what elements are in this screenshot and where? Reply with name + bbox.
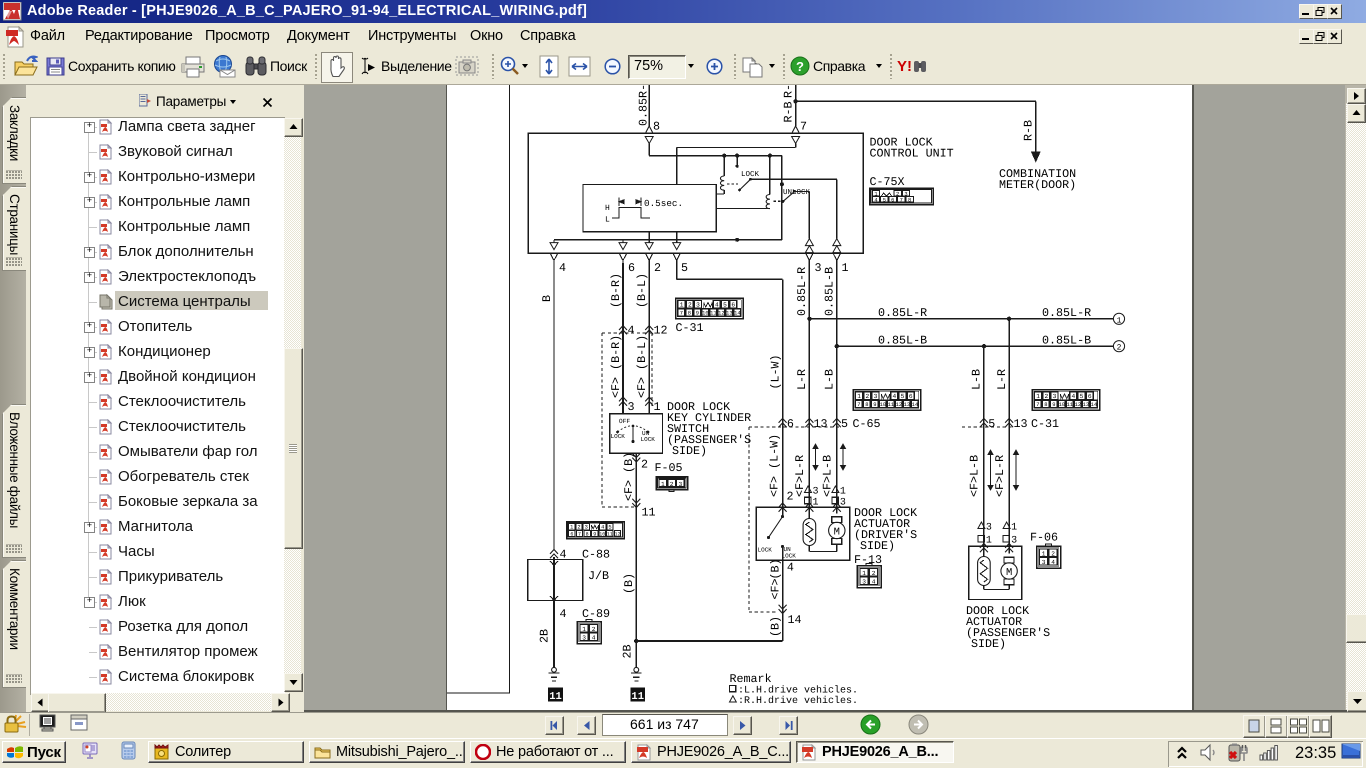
svg-text:1: 1 bbox=[840, 487, 846, 498]
motor M (passenger actuator) bbox=[1008, 546, 1010, 553]
page layout icon bbox=[742, 55, 766, 79]
svg-text:L-B: L-B bbox=[970, 369, 984, 390]
wire: 0.85L-R distribution line to node 1 bbox=[809, 318, 1113, 320]
svg-text:5: 5 bbox=[841, 417, 848, 431]
vertical tabs bbox=[2, 97, 26, 184]
svg-text:4: 4 bbox=[559, 261, 566, 275]
wire: key switch output (B) bbox=[635, 453, 637, 641]
svg-text:11: 11 bbox=[710, 311, 716, 317]
wire: ground bus to actuator return bbox=[636, 640, 782, 642]
svg-text:14: 14 bbox=[788, 613, 802, 627]
svg-text:R-B: R-B bbox=[1022, 120, 1036, 141]
node circle 1 bbox=[1113, 313, 1124, 324]
svg-text:1: 1 bbox=[986, 536, 992, 547]
ground reference box 11 bbox=[630, 688, 645, 702]
svg-text:11: 11 bbox=[888, 402, 894, 408]
svg-text:13: 13 bbox=[1014, 417, 1028, 431]
svg-text:(B-L): (B-L) bbox=[635, 273, 649, 308]
svg-text:1: 1 bbox=[842, 261, 849, 275]
relay contact arm (lock) bbox=[727, 183, 739, 185]
svg-text:F-06: F-06 bbox=[1030, 531, 1058, 545]
svg-text:2B: 2B bbox=[621, 644, 635, 658]
svg-text:5: 5 bbox=[988, 417, 995, 431]
connector C-31 (passenger run) bbox=[1032, 390, 1100, 411]
svg-text:SIDE): SIDE) bbox=[860, 539, 895, 553]
svg-text:SIDE): SIDE) bbox=[672, 444, 707, 458]
svg-text:C-89: C-89 bbox=[582, 607, 610, 621]
wire: timer output leads bbox=[648, 232, 650, 240]
task buttons bbox=[148, 741, 304, 763]
svg-text:1: 1 bbox=[582, 626, 586, 633]
svg-text:5: 5 bbox=[723, 301, 727, 308]
svg-text:6: 6 bbox=[1088, 393, 1092, 400]
svg-text:11: 11 bbox=[631, 691, 644, 703]
svg-text:3: 3 bbox=[862, 578, 866, 585]
ground G2 bbox=[634, 667, 639, 672]
svg-text:1: 1 bbox=[661, 481, 665, 488]
svg-text:R-B: R-B bbox=[782, 101, 796, 122]
svg-text:2: 2 bbox=[654, 261, 661, 275]
svg-text:12: 12 bbox=[896, 402, 902, 408]
svg-text:OFF: OFF bbox=[619, 418, 631, 425]
harness dashed boundary driver actuator bbox=[749, 426, 840, 428]
wire: pin 5 (L-W) to door lock actuator driver side bbox=[676, 263, 678, 279]
svg-text:3: 3 bbox=[815, 261, 822, 275]
actuator M2: DOOR LOCK ACTUATOR (PASSENGER S SIDE) bbox=[969, 546, 1022, 599]
svg-text:9: 9 bbox=[873, 402, 876, 408]
harness dashed boundary passenger run bbox=[962, 426, 1014, 428]
pin marker triangle 3 / square 1 (passenger) bbox=[978, 522, 985, 529]
svg-text:Remark: Remark bbox=[730, 672, 772, 686]
svg-text:4: 4 bbox=[787, 561, 794, 575]
svg-text:2: 2 bbox=[670, 481, 674, 488]
svg-text:6: 6 bbox=[787, 417, 794, 431]
svg-text:4: 4 bbox=[872, 578, 876, 585]
connector C-89 bbox=[577, 622, 601, 644]
IC U1: DOOR LOCK CONTROL UNIT box bbox=[528, 133, 863, 253]
svg-text:<F>L-R: <F>L-R bbox=[993, 455, 1007, 497]
relay coil L1 (lock) bbox=[723, 156, 725, 176]
wire: 0.85L-B distribution line to node 2 bbox=[837, 345, 1114, 347]
svg-text:6: 6 bbox=[909, 393, 913, 400]
svg-text:(B): (B) bbox=[622, 573, 636, 594]
svg-text:2: 2 bbox=[872, 570, 876, 577]
panel h scrollbar bbox=[31, 693, 288, 711]
printer icon bbox=[181, 56, 205, 78]
panel vscroll buttons bbox=[284, 118, 303, 137]
pin marker triangle 3 / square 1 bbox=[805, 486, 812, 493]
svg-text:2: 2 bbox=[1044, 393, 1048, 400]
svg-text:C-31: C-31 bbox=[1031, 417, 1059, 431]
svg-text:4: 4 bbox=[874, 197, 877, 203]
tree area bbox=[30, 117, 285, 695]
svg-text:3: 3 bbox=[1053, 393, 1057, 400]
wire: pin 6 (B-R) to key cylinder switch pin 3 bbox=[622, 263, 624, 414]
svg-text:10: 10 bbox=[702, 311, 708, 317]
connector C-88 bbox=[567, 522, 625, 539]
svg-text:(B): (B) bbox=[768, 558, 782, 579]
svg-text:Y!: Y! bbox=[897, 58, 912, 75]
motor M (driver actuator) bbox=[836, 507, 838, 513]
node: rail junction A bbox=[722, 154, 726, 158]
binoculars bbox=[245, 56, 267, 76]
svg-text:10: 10 bbox=[599, 531, 605, 537]
solenoid coil (passenger actuator) bbox=[983, 546, 985, 556]
svg-text:5: 5 bbox=[901, 393, 905, 400]
svg-text:10: 10 bbox=[880, 402, 886, 408]
svg-text:F-05: F-05 bbox=[655, 461, 683, 475]
nav controls bbox=[545, 716, 564, 735]
node: rail junction C bbox=[768, 154, 772, 158]
svg-text:7: 7 bbox=[578, 531, 581, 537]
svg-text:6: 6 bbox=[570, 531, 573, 537]
svg-text:4: 4 bbox=[892, 393, 896, 400]
wire: passenger L-B branch bbox=[983, 346, 985, 546]
svg-text:8: 8 bbox=[653, 120, 660, 134]
svg-text:<F>L-R: <F>L-R bbox=[793, 455, 807, 497]
svg-text:LOCK: LOCK bbox=[758, 547, 773, 554]
svg-text:0.85L-R: 0.85L-R bbox=[878, 306, 927, 320]
svg-text:<F> (B-R): <F> (B-R) bbox=[609, 335, 623, 398]
wire: unlock contact to pin 3 bbox=[795, 191, 810, 193]
start button bbox=[2, 741, 66, 763]
panel hscroll buttons bbox=[31, 693, 50, 712]
svg-text:7: 7 bbox=[1036, 402, 1039, 408]
wire: pin 1 L-B circuit bbox=[836, 263, 838, 507]
svg-text:0.5sec.: 0.5sec. bbox=[644, 198, 683, 209]
svg-text:14: 14 bbox=[734, 311, 740, 317]
svg-text:11: 11 bbox=[549, 691, 562, 703]
node: junction of R-B wire and combination meter branch bbox=[793, 99, 797, 103]
svg-text:J/B: J/B bbox=[588, 569, 609, 583]
wire: internal supply rail bbox=[649, 155, 782, 157]
ground G1 bbox=[552, 667, 557, 672]
wire: pin 3 L-R circuit bbox=[808, 263, 810, 507]
svg-text:?: ? bbox=[796, 59, 804, 74]
svg-text:1: 1 bbox=[1036, 393, 1040, 400]
svg-text:5: 5 bbox=[681, 261, 688, 275]
svg-text:8: 8 bbox=[908, 197, 911, 203]
svg-text:2: 2 bbox=[641, 458, 648, 472]
doc vscroll buttons bbox=[1347, 88, 1366, 104]
hand tool pressed bbox=[321, 52, 353, 83]
open icon bbox=[13, 55, 38, 78]
svg-text:3: 3 bbox=[585, 525, 588, 531]
svg-text:1: 1 bbox=[1117, 316, 1122, 325]
svg-text:6: 6 bbox=[891, 197, 894, 203]
wire: internal common return bus bbox=[554, 239, 782, 241]
control unit internal: pin 7 input to timer bbox=[792, 137, 800, 144]
svg-text:7: 7 bbox=[680, 311, 683, 317]
svg-text:<F>L-B: <F>L-B bbox=[968, 455, 982, 497]
wire: R-B feed to control unit pin 7 bbox=[795, 85, 797, 126]
fit actual bbox=[538, 55, 560, 78]
svg-text:2: 2 bbox=[688, 301, 692, 308]
svg-text:2: 2 bbox=[592, 626, 596, 633]
svg-text:L-B: L-B bbox=[823, 369, 837, 390]
wire: passenger L-R branch bbox=[1008, 319, 1010, 546]
select tool bbox=[356, 56, 376, 76]
svg-text:13: 13 bbox=[1083, 402, 1089, 408]
switch S1: DOOR LOCK KEY CYLINDER SWITCH bbox=[610, 414, 663, 454]
svg-text:5: 5 bbox=[608, 525, 611, 531]
wire: battery feed 0.85R- to control unit pin 8 bbox=[648, 85, 650, 126]
svg-text:C-75X: C-75X bbox=[870, 175, 905, 189]
svg-text::R.H.drive vehicles.: :R.H.drive vehicles. bbox=[738, 695, 858, 707]
svg-text:6: 6 bbox=[731, 301, 735, 308]
svg-text:1: 1 bbox=[1042, 550, 1046, 557]
svg-text:11: 11 bbox=[1067, 402, 1073, 408]
control unit output pins 3,1 (double triangle) bbox=[805, 239, 813, 246]
svg-text:3: 3 bbox=[679, 481, 683, 488]
svg-text:B: B bbox=[540, 295, 554, 302]
svg-text:M: M bbox=[1006, 567, 1012, 579]
svg-text:LOCK: LOCK bbox=[782, 553, 797, 560]
connector F-13 bbox=[857, 566, 881, 588]
svg-text:LOCK: LOCK bbox=[641, 436, 656, 443]
svg-text:L-R: L-R bbox=[795, 369, 809, 390]
svg-text:0.85R-: 0.85R- bbox=[637, 85, 651, 126]
svg-text:8: 8 bbox=[688, 311, 691, 317]
node: rail junction B bbox=[735, 154, 739, 158]
save icon bbox=[46, 57, 65, 76]
svg-text:6: 6 bbox=[628, 261, 635, 275]
wire: ground lead B from pin 4 bbox=[553, 263, 555, 550]
pin terminals below control unit bbox=[551, 254, 558, 261]
svg-text:3: 3 bbox=[1042, 559, 1046, 566]
svg-text:4: 4 bbox=[1071, 393, 1075, 400]
padlock bbox=[3, 714, 27, 734]
zoom out circle bbox=[604, 58, 621, 75]
page bbox=[447, 85, 1192, 710]
svg-text:13: 13 bbox=[726, 311, 732, 317]
email/globe icon bbox=[212, 55, 237, 79]
svg-text:H: H bbox=[605, 204, 610, 213]
svg-text:1: 1 bbox=[654, 400, 661, 414]
svg-text:0.85L-B: 0.85L-B bbox=[1042, 334, 1091, 348]
svg-text:<F>: <F> bbox=[768, 578, 782, 599]
svg-text:L-R: L-R bbox=[995, 369, 1009, 390]
svg-text:UNLOCK: UNLOCK bbox=[783, 188, 811, 197]
pin marker triangle 1 / square 3 bbox=[832, 486, 839, 493]
tray bbox=[1168, 741, 1363, 767]
wire: lock contact to pin 1 bbox=[751, 178, 837, 180]
panel header bbox=[139, 94, 151, 107]
zoom combo bbox=[628, 55, 686, 79]
svg-text:9: 9 bbox=[593, 531, 596, 537]
svg-text:<F> (B): <F> (B) bbox=[622, 452, 636, 501]
harness boundary (dashed) around key cylinder switch wires bbox=[601, 333, 603, 507]
control unit internal: pin 8 input bbox=[645, 137, 653, 144]
snapshot bbox=[455, 56, 479, 76]
pin marker triangle 1 / square 3 (passenger) bbox=[1003, 522, 1010, 529]
relay coil L2 (unlock) bbox=[769, 156, 771, 195]
zoom-in + dropdown bbox=[499, 55, 520, 76]
timer block: 0.5 sec pulse generator bbox=[583, 185, 716, 232]
yahoo bbox=[897, 57, 929, 75]
svg-text:4: 4 bbox=[601, 525, 604, 531]
wire: driver actuator return pin 4 bbox=[782, 560, 784, 641]
svg-text:C-88: C-88 bbox=[582, 548, 610, 562]
diagram SVG bbox=[447, 85, 1192, 710]
svg-text:0.85L-R: 0.85L-R bbox=[795, 267, 809, 316]
svg-text:7: 7 bbox=[900, 197, 903, 203]
svg-text:(L-W): (L-W) bbox=[769, 354, 783, 389]
relay contact arm (unlock) bbox=[774, 200, 783, 202]
svg-text:12: 12 bbox=[1075, 402, 1081, 408]
svg-text:SIDE): SIDE) bbox=[971, 637, 1006, 651]
ground reference box 11 bbox=[548, 688, 563, 702]
svg-text:3: 3 bbox=[874, 393, 878, 400]
fit width bbox=[568, 55, 591, 78]
svg-text:2: 2 bbox=[787, 490, 794, 504]
svg-text:4: 4 bbox=[715, 301, 719, 308]
svg-text:1: 1 bbox=[862, 570, 866, 577]
help bbox=[790, 56, 810, 76]
svg-text:2: 2 bbox=[1051, 550, 1055, 557]
svg-text:<F> (B-L): <F> (B-L) bbox=[635, 335, 649, 398]
svg-text:7: 7 bbox=[857, 402, 860, 408]
junction block J/B bbox=[528, 560, 583, 601]
solenoid coil (driver actuator) bbox=[808, 507, 810, 518]
svg-text:2B: 2B bbox=[538, 629, 552, 643]
sheet frame border bbox=[509, 85, 511, 693]
svg-text:9: 9 bbox=[1052, 402, 1055, 408]
svg-text:10: 10 bbox=[1059, 402, 1065, 408]
svg-text:9: 9 bbox=[696, 311, 699, 317]
svg-text:CONTROL UNIT: CONTROL UNIT bbox=[870, 147, 954, 161]
wire: rail drop to common return bbox=[781, 156, 783, 240]
svg-text:METER(DOOR): METER(DOOR) bbox=[999, 178, 1076, 192]
svg-text:4: 4 bbox=[1051, 559, 1055, 566]
svg-text:3: 3 bbox=[628, 400, 635, 414]
svg-text:14: 14 bbox=[1091, 402, 1097, 408]
svg-text:3: 3 bbox=[986, 523, 992, 534]
svg-text:1: 1 bbox=[570, 525, 573, 531]
actuator M1: DOOR LOCK ACTUATOR (DRIVER S SIDE) bbox=[756, 507, 850, 560]
svg-text:11: 11 bbox=[642, 506, 656, 520]
svg-text:5: 5 bbox=[1080, 393, 1084, 400]
svg-text:8: 8 bbox=[1044, 402, 1047, 408]
svg-text:0.85L-R: 0.85L-R bbox=[1042, 306, 1091, 320]
svg-text:1: 1 bbox=[1011, 523, 1017, 534]
svg-text:12: 12 bbox=[654, 324, 668, 338]
svg-text:2: 2 bbox=[577, 525, 580, 531]
svg-text:4: 4 bbox=[560, 607, 567, 621]
node circle 2 bbox=[1113, 341, 1124, 352]
svg-text:L: L bbox=[605, 216, 610, 225]
svg-text:7: 7 bbox=[800, 120, 807, 134]
svg-text:13: 13 bbox=[814, 417, 828, 431]
svg-text:C-65: C-65 bbox=[853, 417, 881, 431]
svg-text:11: 11 bbox=[607, 531, 613, 537]
svg-text:12: 12 bbox=[614, 531, 620, 537]
svg-text:3: 3 bbox=[696, 301, 700, 308]
svg-text:4: 4 bbox=[592, 634, 596, 641]
svg-text:<F> (L-W): <F> (L-W) bbox=[768, 434, 782, 497]
svg-text:5: 5 bbox=[883, 197, 886, 203]
connector C-65 bbox=[853, 390, 921, 411]
connector C-31 bbox=[676, 298, 744, 319]
svg-text:0.85L-B: 0.85L-B bbox=[878, 334, 927, 348]
svg-text:3: 3 bbox=[1011, 536, 1017, 547]
svg-text:C-31: C-31 bbox=[676, 321, 704, 335]
svg-text:0.85L-B: 0.85L-B bbox=[823, 267, 837, 316]
quick launch icons bbox=[82, 742, 98, 759]
svg-text:R-: R- bbox=[782, 85, 796, 98]
svg-text:M: M bbox=[834, 527, 840, 539]
svg-text:14: 14 bbox=[912, 402, 918, 408]
tree vertical guide bbox=[88, 127, 89, 602]
svg-text:(B): (B) bbox=[768, 616, 782, 637]
svg-text:2: 2 bbox=[1117, 344, 1122, 353]
doc v scrollbar bbox=[1346, 103, 1366, 710]
svg-text:3: 3 bbox=[582, 634, 586, 641]
svg-text:4: 4 bbox=[628, 324, 635, 338]
layout buttons bbox=[1243, 715, 1266, 738]
svg-text:LOCK: LOCK bbox=[611, 433, 626, 440]
svg-text:8: 8 bbox=[865, 402, 868, 408]
svg-text::L.H.drive vehicles.: :L.H.drive vehicles. bbox=[738, 685, 858, 697]
TREE bbox=[89, 127, 97, 128]
zoom in circle bbox=[706, 58, 723, 75]
panel v scrollbar bbox=[284, 118, 301, 692]
svg-text:1: 1 bbox=[857, 393, 861, 400]
wire: R-B branch to combination meter bbox=[796, 100, 1036, 102]
svg-text:(B-R): (B-R) bbox=[609, 273, 623, 308]
node: ground bus junction bbox=[634, 639, 638, 643]
svg-text:2: 2 bbox=[865, 393, 869, 400]
switch contact stub for lock relay bbox=[736, 156, 738, 166]
svg-text:1: 1 bbox=[680, 301, 684, 308]
svg-text:8: 8 bbox=[586, 531, 589, 537]
svg-text:3: 3 bbox=[813, 487, 819, 498]
left tab strip background bbox=[0, 85, 26, 712]
svg-text:12: 12 bbox=[718, 311, 724, 317]
svg-text:13: 13 bbox=[904, 402, 910, 408]
control unit output pins 4,6,2,5 bbox=[553, 240, 555, 243]
svg-text:LOCK: LOCK bbox=[741, 170, 760, 179]
wire: pin 2 (B-L) to key cylinder switch pin 1 bbox=[648, 263, 650, 414]
